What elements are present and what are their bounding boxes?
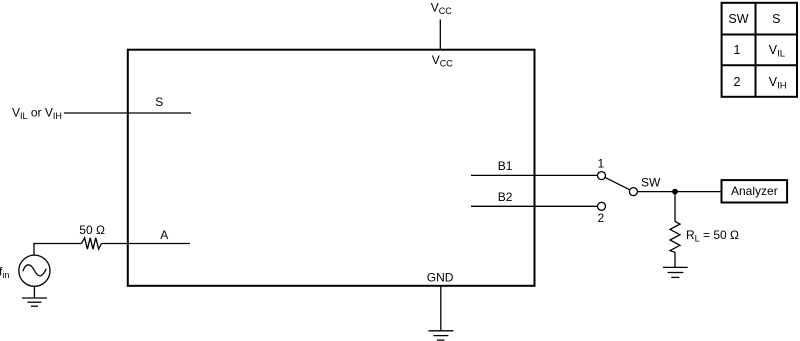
wire node to RL [674,192,676,222]
wire RL to ground [674,252,676,267]
wire A input right segment [102,243,191,245]
svg-text:B2: B2 [498,190,513,204]
analyzer box [722,180,788,202]
value label RL = 50 ohm [686,228,739,244]
svg-text:S: S [772,12,780,26]
DUT box U1 [128,50,535,286]
svg-text:S: S [155,95,163,109]
table header SW [728,12,748,26]
svg-text:VIL: VIL [769,43,785,60]
junction node [672,189,678,195]
table cell VIL [769,43,785,60]
table cell 1 [734,43,741,57]
resistor 50 ohm (series) [82,238,102,249]
resistor RL (load) [670,222,680,253]
table row divider 1 [722,34,797,36]
switch contact 1 [598,172,606,180]
ground (RL) [663,267,688,277]
wire VCC supply stub [439,20,441,51]
node VIL or VIH (S drive label) [12,106,62,122]
svg-text:VCC: VCC [432,53,454,69]
node fin label [0,265,9,281]
svg-text:50 Ω: 50 Ω [79,223,105,237]
wire A input left segment [34,244,82,256]
value label 50 ohm [79,223,105,237]
svg-text:RL = 50 Ω: RL = 50 Ω [686,228,739,244]
svg-text:A: A [160,228,168,242]
table column divider [755,3,757,97]
svg-text:B1: B1 [498,159,513,173]
table SW/S outer frame [722,3,797,97]
label 1 (switch position) [598,156,605,170]
svg-text:fin: fin [0,265,9,281]
table row divider 2 [722,64,797,66]
switch contact 2 [598,202,606,210]
pin label B2 [498,190,513,204]
svg-text:2: 2 [734,75,741,89]
svg-text:VCC: VCC [431,1,453,17]
svg-text:GND: GND [427,271,454,285]
pin label VCC (inside box) [432,53,454,69]
pin label GND [427,271,454,285]
source fin (sine generator) [19,255,50,286]
svg-text:VIL or VIH: VIL or VIH [12,106,62,122]
svg-text:SW: SW [641,176,661,190]
svg-text:1: 1 [734,43,741,57]
wire SW to node [637,191,675,193]
node VCC (top label) [431,1,453,17]
label 2 (switch position) [598,211,605,225]
svg-text:1: 1 [598,156,605,170]
pin label A [160,228,168,242]
switch arm SW [605,177,630,189]
svg-text:Analyzer: Analyzer [731,184,778,198]
ground (fin source) [22,298,47,306]
svg-text:SW: SW [728,12,748,26]
wire B2 output [471,205,597,207]
pin label B1 [498,159,513,173]
wire B1 output [471,174,597,176]
wire GND to ground [440,286,442,331]
svg-text:2: 2 [598,211,605,225]
wire fin to ground [33,286,35,298]
table cell 2 [734,75,741,89]
svg-text:VIH: VIH [769,75,787,92]
table cell VIH [769,75,787,92]
switch SW pole [629,188,637,196]
ground (GND pin) [428,331,453,340]
wire node to analyzer [675,191,722,193]
pin label S [155,95,163,109]
label SW [641,176,661,190]
wire S input [64,112,191,114]
table header S [772,12,780,26]
